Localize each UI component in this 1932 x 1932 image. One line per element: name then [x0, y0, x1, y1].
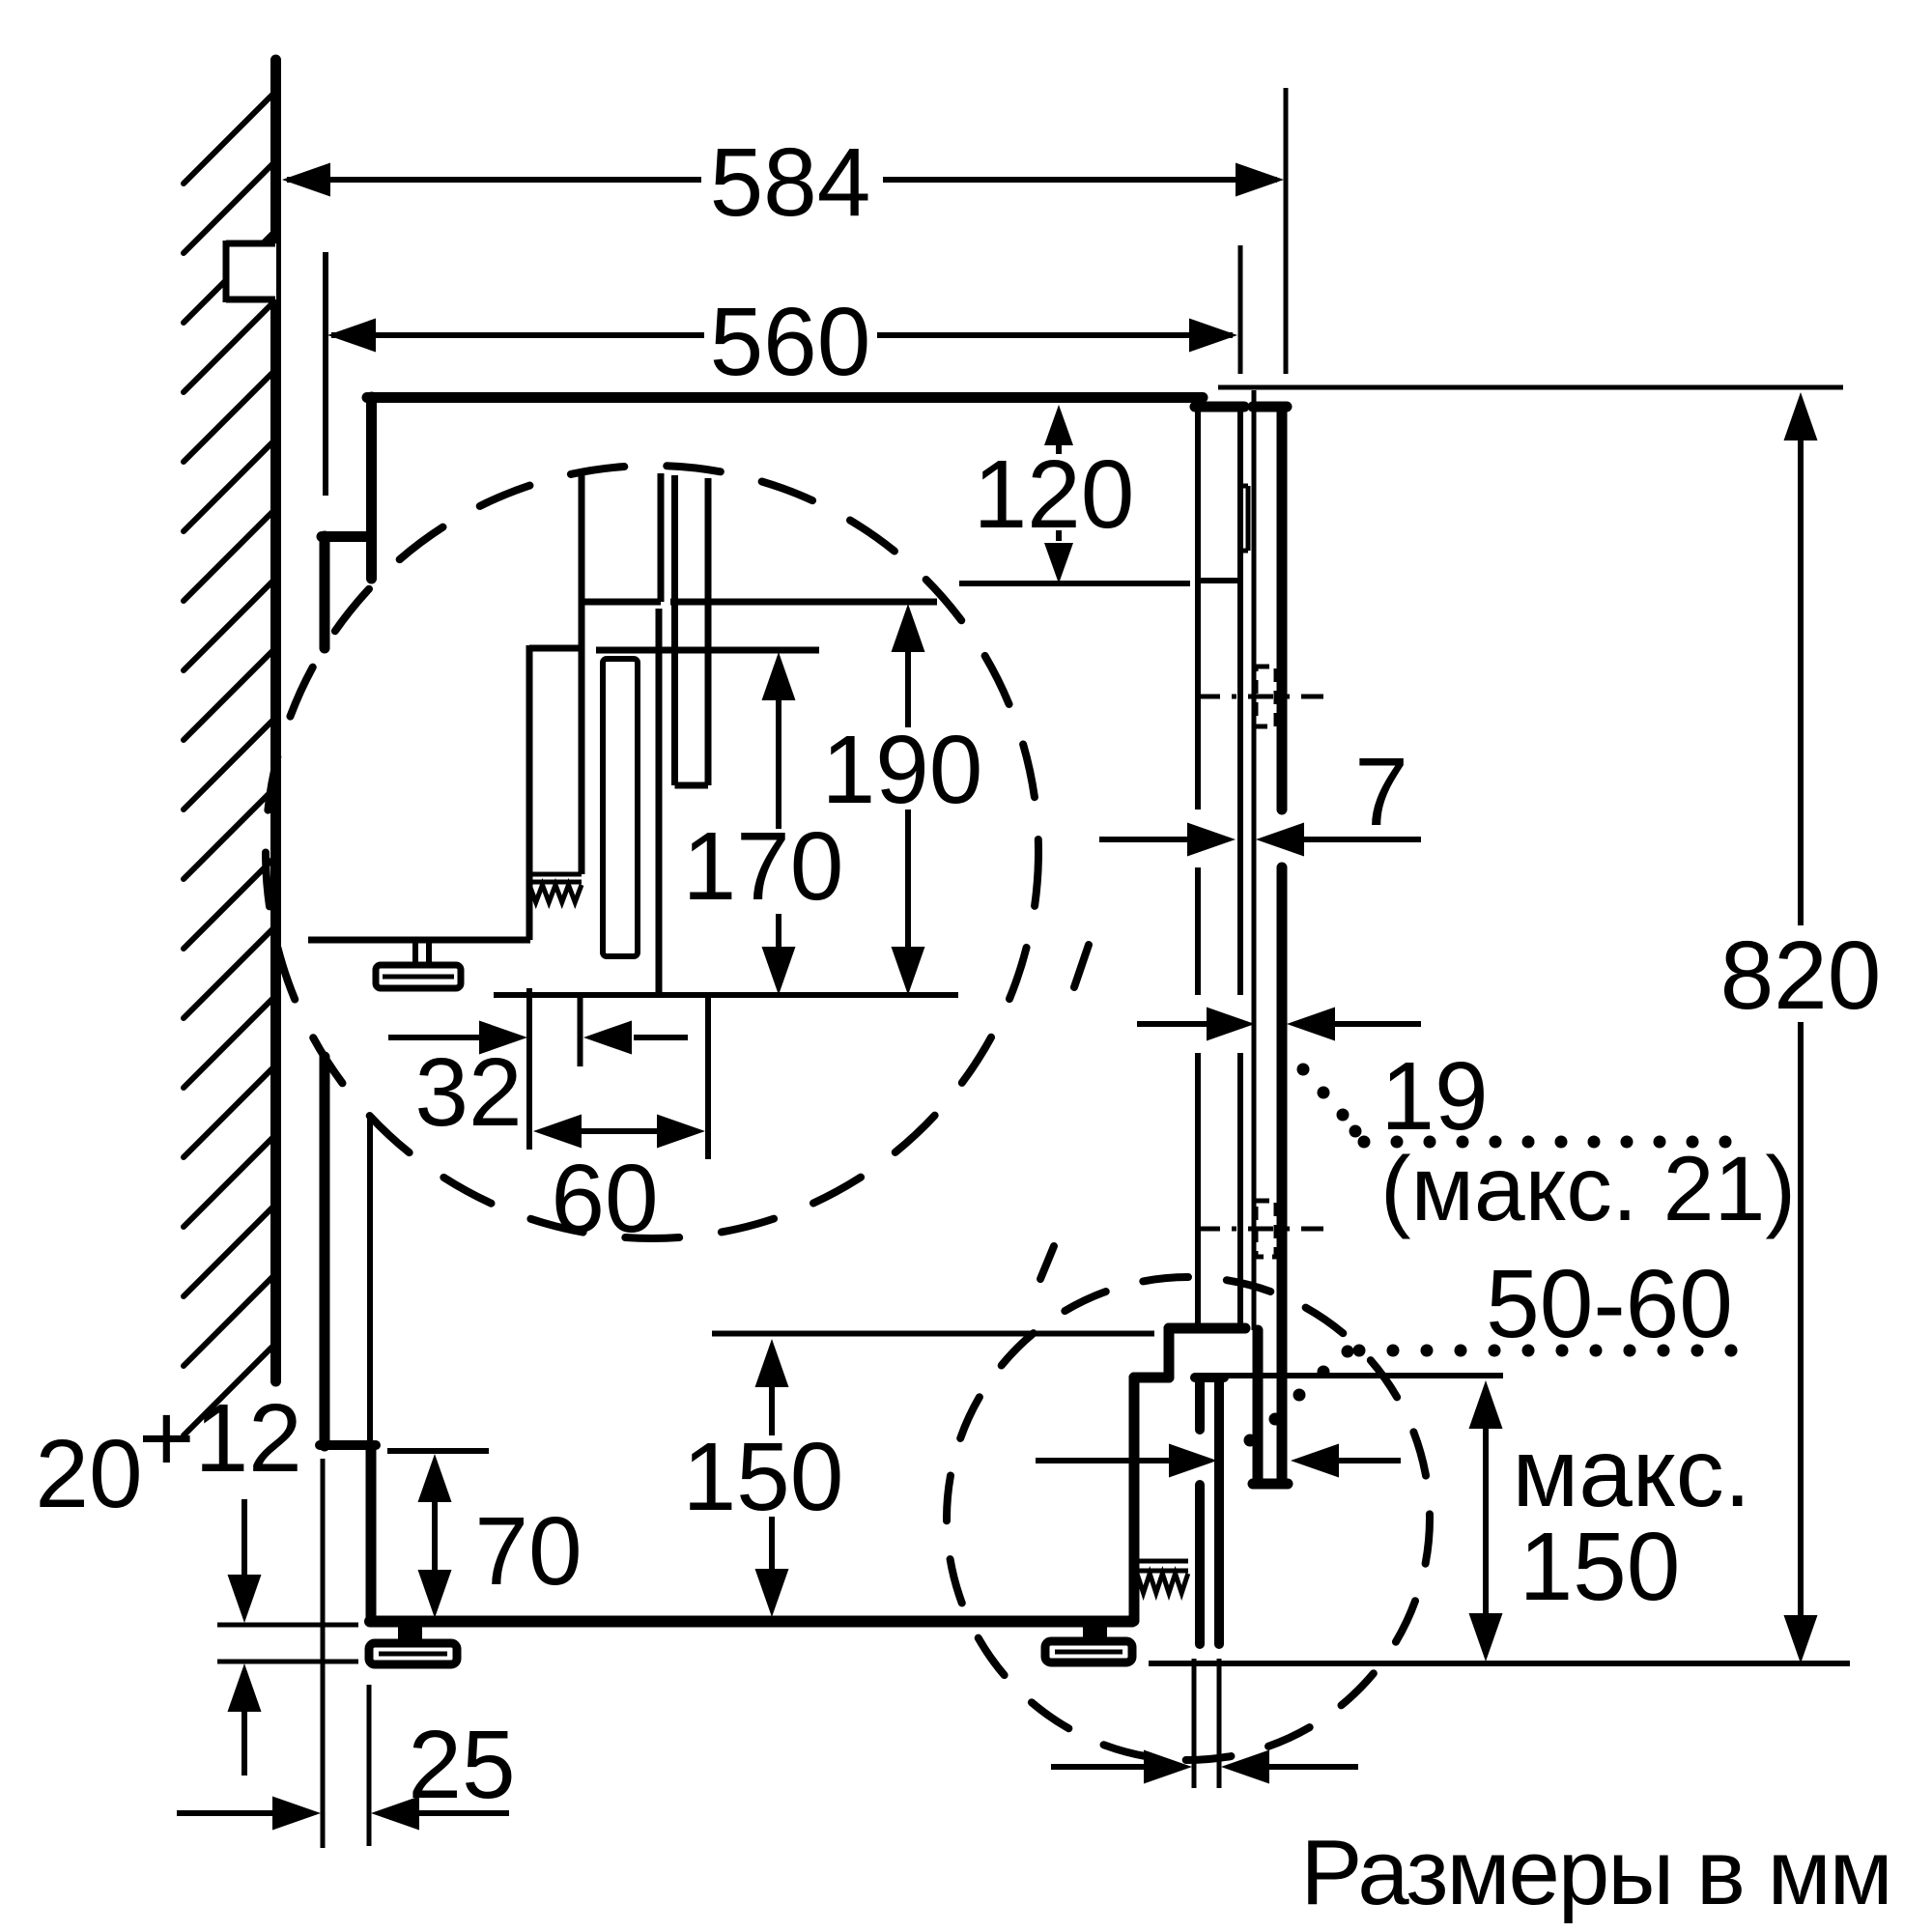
- dim 60 extension line: [705, 995, 711, 1159]
- dim 19 arrows: [1137, 1021, 1207, 1027]
- dim 32 extension lines: [526, 988, 532, 1150]
- svg-text:560: 560: [710, 288, 871, 396]
- lower front step outline: [1169, 1323, 1245, 1334]
- plinth bottom dim arrows: [1051, 1764, 1148, 1770]
- dim 584: [287, 177, 701, 183]
- svg-text:50-60: 50-60: [1486, 1250, 1733, 1358]
- niche front panel outer line: [1237, 410, 1243, 995]
- stray arc dash a: [1074, 945, 1089, 987]
- extension line door front: [1284, 88, 1289, 374]
- wall hatching: [184, 92, 275, 1435]
- hinge 1 center line: [1195, 695, 1323, 699]
- door lower rear thick: [1253, 1330, 1264, 1484]
- hose line L2: [658, 473, 665, 602]
- niche front panel top cap: [1195, 402, 1244, 412]
- center drain line: [656, 609, 663, 995]
- furniture door front face: [1277, 410, 1288, 810]
- dim 60: [533, 1115, 582, 1149]
- svg-text:+12: +12: [138, 1384, 302, 1492]
- lower dashed circle: [947, 1277, 1430, 1760]
- door bottom cap: [1253, 1479, 1288, 1490]
- pedestal plate: [376, 965, 461, 988]
- appliance bottom line: [370, 1616, 1132, 1628]
- panel notch: [1240, 484, 1248, 489]
- svg-text:20: 20: [35, 1420, 142, 1528]
- wall (hatched) vertical line: [270, 60, 281, 1381]
- rear hook bracket: [322, 531, 371, 542]
- svg-text:60: 60: [551, 1145, 658, 1253]
- svg-text:макс.: макс.: [1512, 1419, 1750, 1527]
- furniture door top cap: [1253, 402, 1287, 412]
- dim maks150: [1469, 1380, 1503, 1429]
- svg-text:170: 170: [683, 812, 844, 921]
- assembly baseline: [494, 992, 958, 998]
- plinth recess dim (unlabeled): [1036, 1458, 1171, 1463]
- dim maks150 reference line: [1224, 1373, 1503, 1378]
- svg-text:120: 120: [974, 440, 1135, 549]
- standpipe rect R2: [671, 475, 678, 785]
- plinth channel: [1195, 1382, 1205, 1430]
- dim 20+12: [241, 1499, 247, 1578]
- svg-text:70: 70: [474, 1497, 582, 1605]
- hinge 1 dashed screw: [1256, 667, 1276, 726]
- box A top: [529, 645, 582, 652]
- left foot stem: [398, 1621, 422, 1644]
- 190 reference line: [670, 599, 937, 606]
- worktop underside line: [1218, 385, 1843, 390]
- svg-text:19: 19: [1380, 1042, 1488, 1151]
- dim 70 reference line: [387, 1448, 489, 1454]
- appliance left edge upper: [366, 397, 377, 579]
- plinth bottom extension lines: [1192, 1659, 1197, 1788]
- dim 560: [331, 332, 704, 338]
- drum dashed circle: [266, 466, 1038, 1238]
- svg-text:Размеры в мм: Размеры в мм: [1300, 1821, 1890, 1924]
- left foot plate: [369, 1643, 457, 1664]
- 170 reference line: [596, 647, 819, 654]
- dim 150 reference line: [712, 1331, 1154, 1337]
- svg-text:(макс. 21): (макс. 21): [1380, 1138, 1796, 1240]
- dim 560 extension left: [323, 252, 328, 496]
- dim 120: [1044, 405, 1073, 445]
- svg-text:190: 190: [822, 716, 983, 824]
- dotted line 50-60: [1244, 1345, 1738, 1447]
- appliance left edge lower: [366, 1445, 377, 1621]
- inlet assembly: box A left side: [526, 645, 533, 940]
- furniture door rear face: [1252, 390, 1257, 1330]
- dim 170: [762, 652, 796, 700]
- floor line right: [1149, 1661, 1850, 1666]
- dim 70: [418, 1454, 452, 1502]
- dotted line 19: [1297, 1064, 1732, 1149]
- svg-text:150: 150: [1520, 1513, 1681, 1621]
- dim 150 center: [755, 1339, 789, 1387]
- 120 reference line: [959, 581, 1190, 586]
- stray arc dash b: [1040, 1246, 1054, 1279]
- appliance left edge middle: [320, 1057, 330, 1446]
- svg-text:7: 7: [1354, 738, 1408, 846]
- dim 7: [1099, 837, 1187, 842]
- niche front panel inner line: [1195, 410, 1201, 810]
- left plinth step: [320, 1440, 376, 1450]
- svg-text:820: 820: [1720, 922, 1882, 1030]
- panel division line: [1198, 578, 1240, 583]
- connector H1: [582, 599, 661, 606]
- dim 25 extension lines: [321, 1459, 326, 1848]
- dim 190: [892, 604, 925, 652]
- dim 820: [1784, 392, 1818, 440]
- dim 32: [388, 1035, 483, 1040]
- dim 25: [177, 1810, 276, 1816]
- appliance top line: [367, 392, 1203, 403]
- box A right side: [579, 602, 585, 874]
- floor short lines left: [217, 1623, 358, 1628]
- right foot stem: [1083, 1621, 1107, 1644]
- svg-text:150: 150: [683, 1423, 844, 1531]
- wall tab bracket: [226, 243, 276, 299]
- box A double line: [529, 872, 582, 877]
- svg-text:25: 25: [408, 1711, 515, 1819]
- right foot plate: [1045, 1641, 1132, 1662]
- base line from box A to left: [308, 937, 530, 944]
- extension line niche: [1238, 245, 1243, 374]
- pedestal stem: [412, 940, 418, 965]
- svg-text:32: 32: [414, 1038, 522, 1147]
- hose line L1: [579, 474, 585, 602]
- plinth sawtooth: [1137, 1559, 1188, 1564]
- svg-text:584: 584: [710, 128, 871, 237]
- hose rect R1: [603, 659, 638, 956]
- box A sawtooth: [529, 885, 582, 902]
- hinge 2 center line: [1195, 1227, 1323, 1232]
- inner left panel line: [367, 1116, 373, 1445]
- hinge 2 dashed screw: [1256, 1201, 1276, 1257]
